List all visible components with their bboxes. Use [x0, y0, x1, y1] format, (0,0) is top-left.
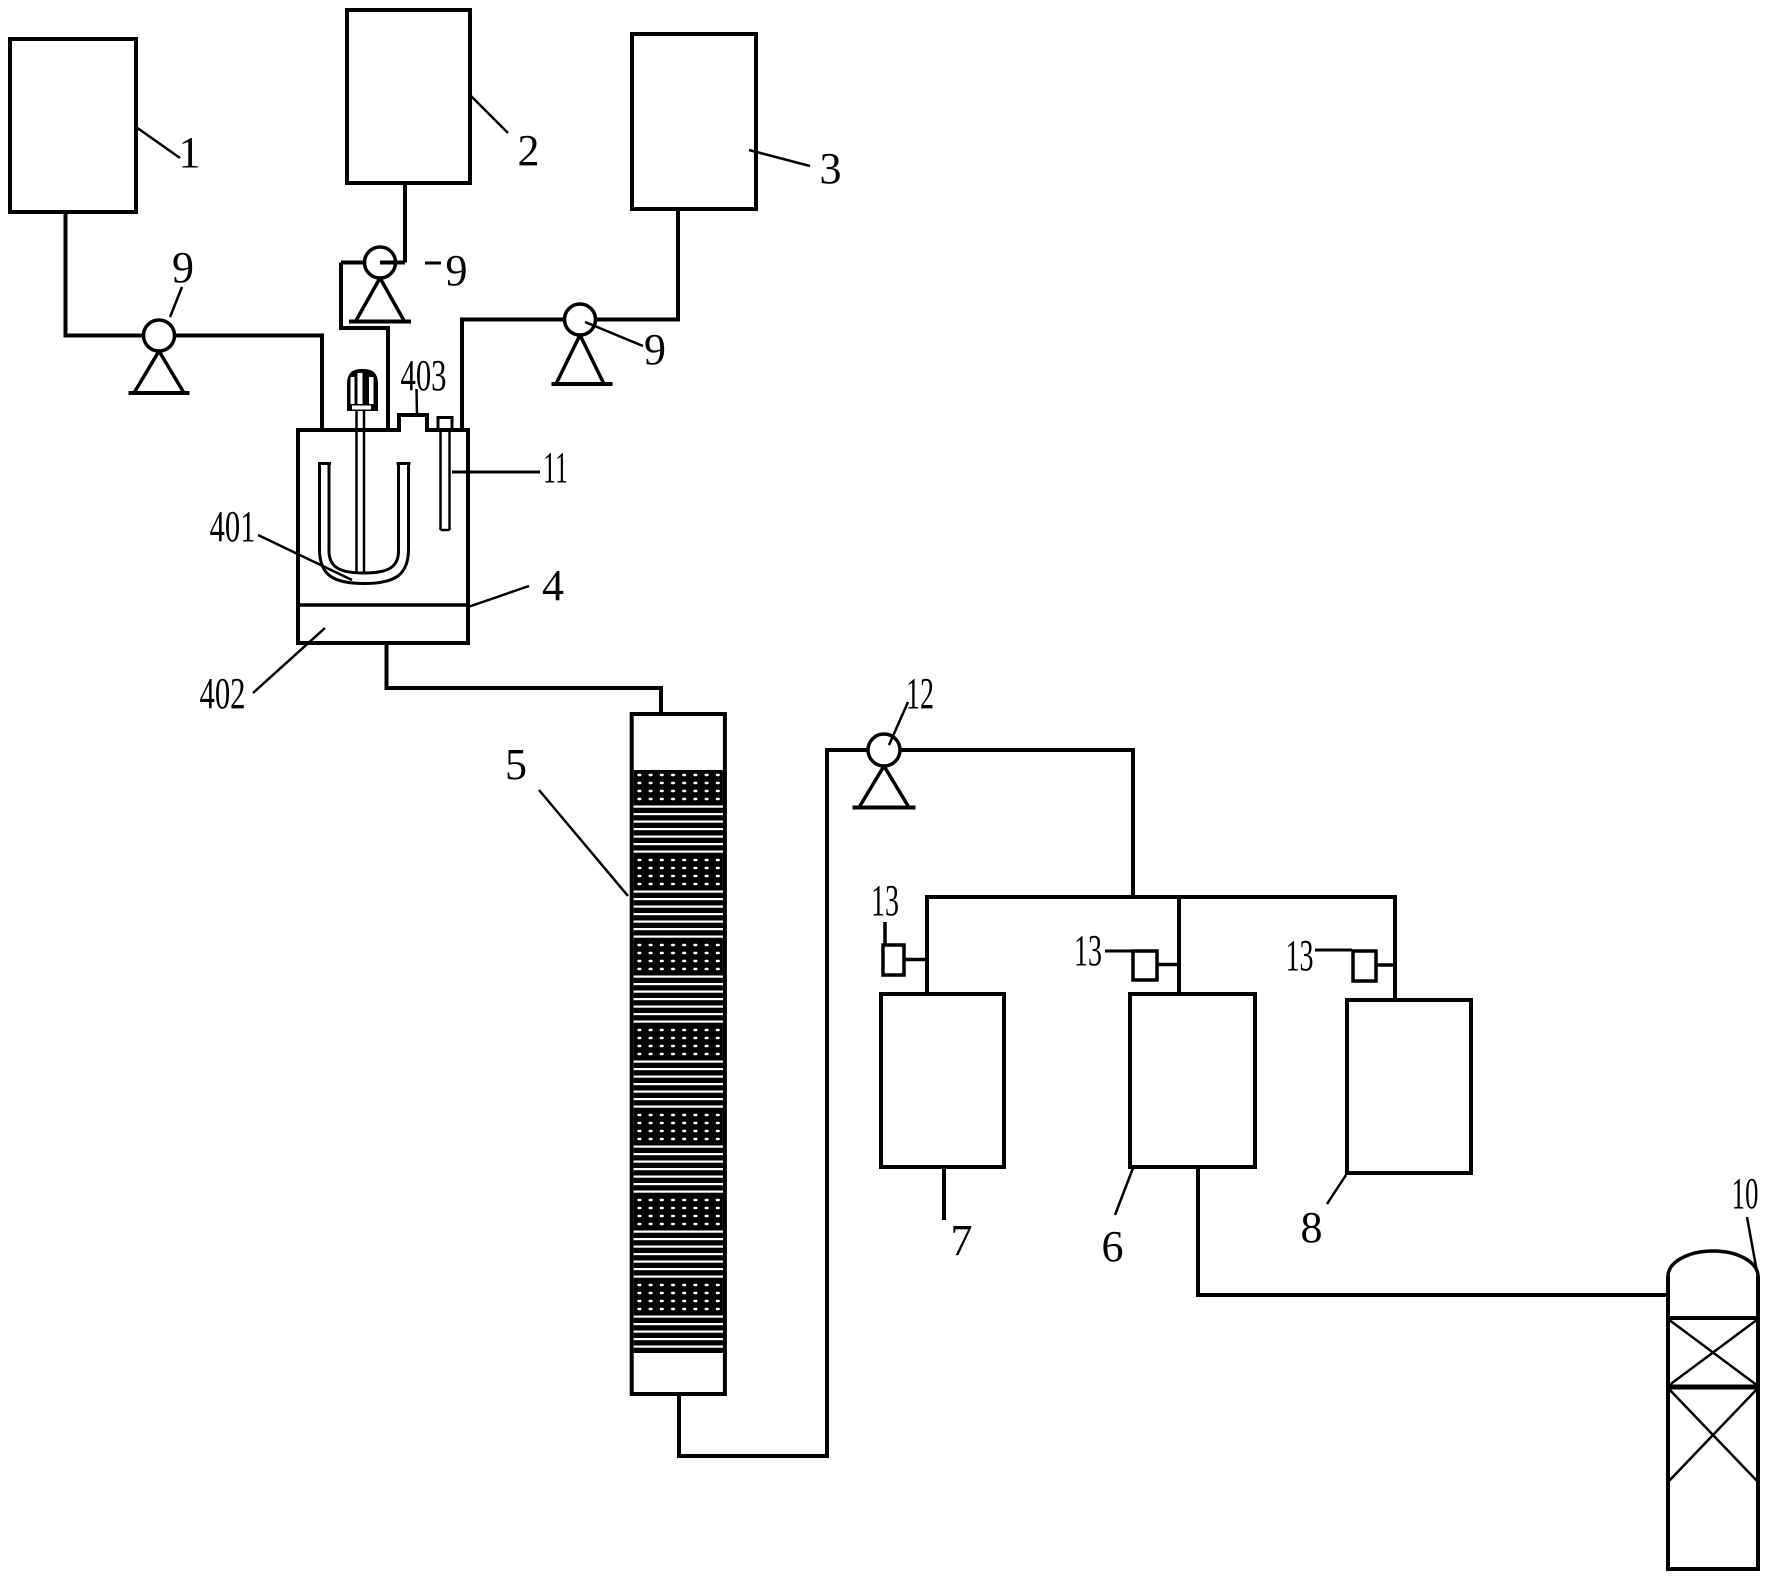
svg-text:3: 3: [820, 144, 842, 193]
svg-text:9: 9: [644, 325, 666, 374]
svg-text:6: 6: [1102, 1222, 1124, 1271]
svg-text:1: 1: [179, 128, 201, 177]
svg-text:13: 13: [1074, 926, 1102, 975]
svg-text:403: 403: [401, 351, 447, 400]
svg-text:401: 401: [210, 502, 256, 551]
svg-text:8: 8: [1301, 1203, 1323, 1252]
svg-text:12: 12: [906, 669, 934, 718]
svg-text:2: 2: [518, 126, 540, 175]
svg-text:13: 13: [1286, 931, 1314, 980]
svg-text:5: 5: [505, 740, 527, 789]
svg-text:7: 7: [951, 1216, 973, 1265]
svg-text:9: 9: [172, 243, 194, 292]
svg-text:4: 4: [542, 561, 564, 610]
svg-text:13: 13: [871, 876, 899, 925]
svg-text:11: 11: [543, 443, 568, 492]
svg-text:10: 10: [1732, 1169, 1759, 1218]
svg-text:9: 9: [446, 246, 468, 295]
svg-text:402: 402: [200, 669, 246, 718]
